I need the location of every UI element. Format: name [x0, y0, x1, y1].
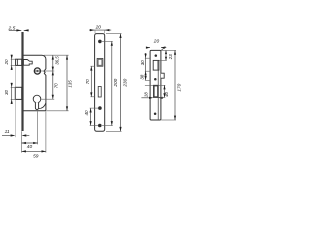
svg-text:23: 23: [168, 54, 173, 60]
lock case outline: [23, 55, 46, 111]
svg-text:59: 59: [33, 154, 39, 160]
dim 170 text: [177, 83, 182, 91]
dim 170 line and arrows: [174, 50, 176, 120]
dim 59 line and arrows: [22, 150, 46, 152]
dim 20 line (right view): [146, 47, 166, 49]
ext lines dim 40 strike: [158, 85, 165, 97]
strike plate fold line: [157, 70, 159, 119]
dim 40 text (strike): [164, 91, 169, 96]
dim 70 (left view) line and arrows: [52, 71, 54, 99]
dim 30 (deadbolt) line and arrows: [11, 83, 13, 104]
strike plate body: [150, 50, 161, 120]
faceplate front plate: [95, 34, 105, 132]
strike plate right tab: [161, 73, 164, 78]
svg-text:20: 20: [4, 59, 9, 66]
latch opening (front): [97, 59, 103, 67]
dim 70 text (middle): [85, 79, 90, 85]
dim 23 line and arrows: [165, 50, 167, 60]
deadbolt head: [15, 87, 21, 99]
svg-text:18: 18: [144, 92, 149, 97]
svg-text:170: 170: [177, 83, 182, 91]
dim 20 (latch) ext lines: [11, 59, 16, 65]
ext lines dim 170: [161, 50, 176, 120]
dim 40 (middle) line and arrows: [90, 108, 92, 125]
svg-text:70: 70: [54, 83, 59, 89]
svg-text:40: 40: [27, 144, 33, 150]
deadbolt opening (strike): [154, 85, 159, 97]
svg-text:70: 70: [85, 79, 90, 85]
dim 230 line and arrows: [119, 34, 121, 132]
ext line cylinder axis: [41, 98, 54, 100]
svg-text:2,5: 2,5: [8, 26, 16, 32]
dim 40 (left view bottom) line and arrows: [22, 142, 38, 144]
dim 20 text: [4, 59, 9, 66]
dim 11 line and arrows: [2, 134, 29, 136]
svg-text:40: 40: [84, 110, 89, 116]
middle screw hole: [98, 106, 102, 110]
dim 135 text: [68, 80, 73, 88]
screw hole bottom (strike): [154, 113, 157, 116]
dim 2,5 text: [8, 26, 16, 32]
dim 200 line and arrows: [111, 41, 113, 125]
ext lines plate top corners: [95, 30, 104, 33]
dim 135 line and arrows: [66, 55, 68, 111]
ext lines dim 40 middle: [90, 108, 98, 125]
deadbolt opening (front): [98, 87, 101, 98]
latch head (protruding bolt): [16, 59, 22, 65]
ext lines dim 230: [106, 34, 122, 132]
ext line cylinder axis bottom: [37, 111, 39, 144]
svg-text:200: 200: [113, 78, 118, 87]
dim 30 (strike) line and arrows: [145, 53, 147, 80]
dim 30 text: [4, 89, 9, 95]
ext line case top right: [44, 54, 69, 56]
dim 38 arrow (strike): [145, 76, 147, 80]
ext line plate front bottom: [21, 131, 23, 152]
dim 20 text (right view): [153, 39, 160, 45]
dim 30 (deadbolt) ext lines: [11, 87, 15, 99]
dim 2,5 line and arrows: [9, 29, 29, 31]
svg-text:36,5: 36,5: [55, 56, 60, 65]
svg-text:20: 20: [153, 39, 160, 45]
top screw hole: [98, 40, 102, 44]
svg-text:38: 38: [140, 74, 145, 79]
svg-text:135: 135: [68, 80, 73, 88]
dim 40 text (middle): [84, 110, 89, 116]
dim 70 (middle) line and arrows: [90, 66, 92, 97]
ext lines dim 70 middle: [90, 66, 94, 97]
latch opening (strike): [153, 60, 159, 70]
dim 38 text: [140, 74, 145, 79]
dim 20 line (middle): [89, 29, 111, 31]
dim 200 text: [113, 78, 118, 87]
ext lines left chain dims: [145, 58, 154, 85]
svg-text:30: 30: [4, 89, 9, 95]
dim 18 text: [144, 92, 149, 97]
screw hole top (strike): [155, 54, 158, 57]
svg-text:30: 30: [140, 60, 145, 65]
dim 23 text: [168, 54, 173, 60]
bottom screw hole: [98, 124, 102, 128]
dim 18 line and arrows: [141, 97, 163, 99]
ext line case right bottom: [45, 111, 47, 152]
ext line case bottom right: [46, 110, 68, 112]
dim 40 text (left view): [27, 144, 33, 150]
screw hole middle (strike): [154, 78, 157, 81]
dim 59 text: [33, 154, 39, 160]
latch bolt inside case: [23, 60, 32, 66]
euro cylinder hole: [33, 95, 41, 109]
svg-text:40: 40: [164, 91, 169, 96]
svg-text:20: 20: [95, 25, 102, 31]
dim 20 text (middle): [95, 25, 102, 31]
dim 30 text (strike): [140, 60, 145, 65]
dim 40 (strike) line and arrows: [163, 85, 165, 97]
ext line latch top right: [159, 59, 167, 61]
ext line latch face (long thin): [15, 66, 17, 137]
ext line follower axis: [41, 70, 55, 72]
corner leader diagonal: [161, 47, 166, 51]
follower screw circle: [34, 68, 40, 74]
svg-text:230: 230: [122, 78, 127, 87]
dim 36,5 line and arrows: [52, 55, 54, 71]
dim 20 (latch) line and arrows: [11, 55, 13, 70]
ext lines dim 200: [102, 41, 113, 125]
dim 11 text: [5, 129, 10, 135]
dim 36,5 text: [55, 56, 60, 65]
faceplate (edge-on dark bar): [21, 32, 23, 131]
dim 70 text (left view): [54, 83, 59, 89]
dim 230 text: [122, 78, 127, 87]
case inner arc near cylinder: [39, 103, 46, 108]
svg-text:11: 11: [5, 129, 10, 135]
